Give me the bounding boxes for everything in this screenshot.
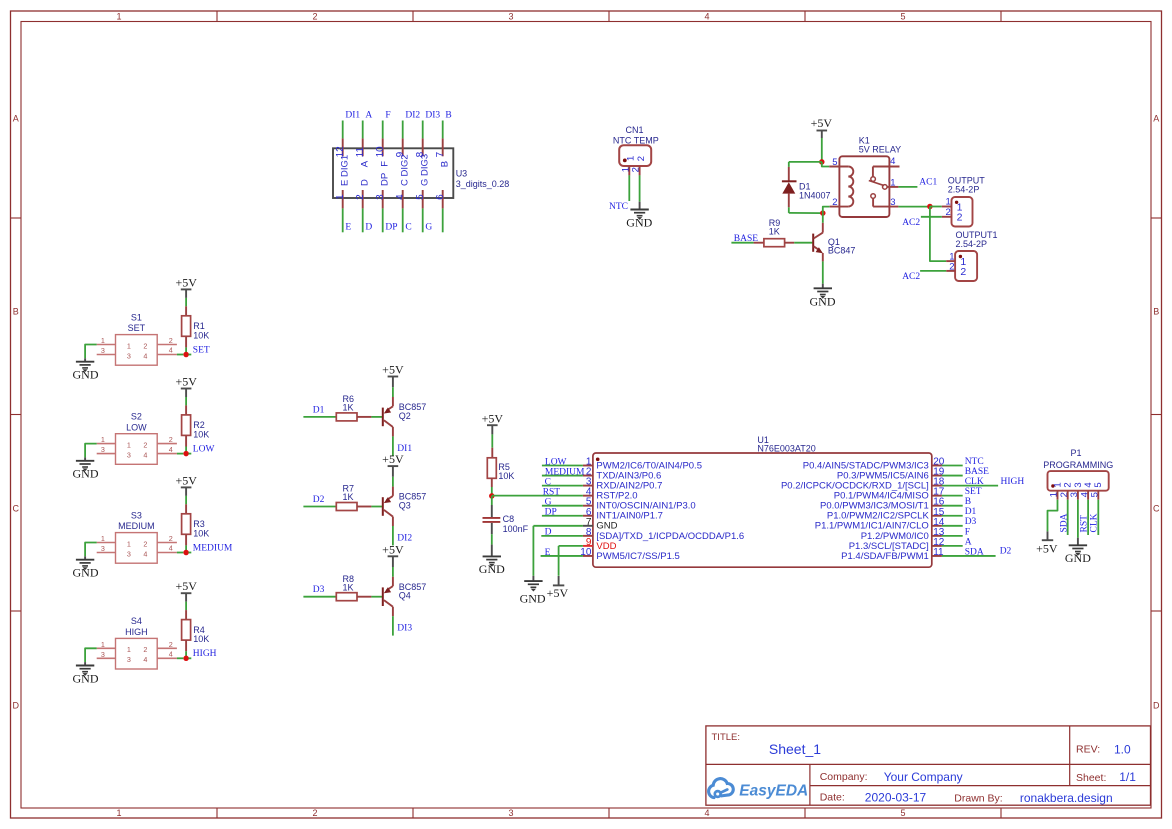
net label AC2 (902, 218, 920, 228)
junction node RST (489, 493, 495, 499)
wire (303, 506, 336, 508)
wire (942, 545, 963, 547)
resistor R6 1K (336, 413, 371, 421)
net label SDA (965, 547, 984, 557)
svg-text:1.0: 1.0 (1114, 742, 1131, 756)
label R2 10K (193, 420, 209, 439)
svg-text:4: 4 (890, 156, 895, 167)
svg-text:DI1: DI1 (345, 111, 360, 121)
svg-text:C DIG2: C DIG2 (400, 154, 411, 186)
svg-text:2: 2 (636, 156, 647, 161)
svg-text:7: 7 (435, 151, 446, 157)
switch S4 HIGH (97, 638, 177, 669)
label S3 MEDIUM (118, 510, 155, 531)
svg-text:REV:: REV: (1076, 744, 1100, 756)
svg-text:DI2: DI2 (405, 111, 420, 121)
U1 pin 10 (PWM5/IC7/SS/P1.5) (580, 547, 680, 562)
+5V power (R3) (175, 473, 197, 496)
svg-text:4: 4 (143, 655, 147, 664)
svg-text:GND: GND (73, 368, 99, 382)
net label SET (965, 487, 982, 497)
wire (921, 216, 942, 218)
wire (185, 397, 187, 405)
U3 pin 7 (435, 138, 451, 167)
svg-text:C8: C8 (503, 514, 515, 524)
svg-text:1: 1 (890, 177, 895, 188)
svg-text:2: 2 (832, 197, 837, 208)
net label D2 (313, 495, 325, 505)
svg-text:1: 1 (101, 534, 105, 543)
svg-text:4: 4 (395, 194, 406, 200)
net label AC2 (902, 272, 920, 282)
wire (422, 208, 424, 232)
svg-text:2: 2 (312, 808, 317, 818)
svg-text:G: G (425, 223, 432, 233)
wire (442, 208, 444, 232)
wire (177, 453, 183, 455)
net label DP (385, 223, 397, 233)
wire (942, 555, 996, 557)
svg-text:1K: 1K (343, 582, 354, 592)
wire (382, 121, 384, 139)
U1 pin 4 (RST/P2.0) (583, 487, 638, 502)
svg-text:10K: 10K (193, 528, 209, 538)
svg-text:1/1: 1/1 (1119, 770, 1136, 784)
wire (392, 436, 394, 455)
svg-text:A: A (1153, 114, 1159, 124)
wire (491, 496, 493, 505)
wire (930, 207, 946, 262)
wire (542, 485, 583, 487)
svg-text:10K: 10K (193, 430, 209, 440)
svg-text:2020-03-17: 2020-03-17 (865, 790, 927, 804)
svg-text:GND: GND (73, 467, 99, 481)
wire (392, 616, 394, 635)
label OUTPUT 2.54-2P (948, 175, 986, 194)
svg-text:4: 4 (169, 445, 173, 454)
label S4 HIGH (125, 616, 148, 637)
svg-text:3: 3 (101, 544, 105, 553)
svg-text:DP: DP (380, 173, 391, 186)
svg-text:2: 2 (949, 262, 954, 273)
U1 pin 11 (P1.4/SDA/FB/PWM1) (841, 547, 944, 562)
net label E (345, 223, 351, 233)
svg-text:B: B (445, 111, 451, 121)
U3 pin 2 (355, 179, 371, 208)
svg-text:+5V: +5V (1036, 541, 1058, 555)
svg-text:3: 3 (127, 655, 131, 664)
label Q2 BC857 (399, 402, 427, 421)
wire (822, 213, 824, 223)
svg-text:10K: 10K (193, 330, 209, 340)
svg-text:MEDIUM: MEDIUM (545, 467, 585, 477)
net label D2 (1000, 546, 1012, 556)
net label D3 (313, 585, 325, 595)
net label MEDIUM (193, 543, 233, 553)
svg-text:3: 3 (101, 650, 105, 659)
U3 pin 10 (375, 138, 391, 166)
ground P1 (1065, 538, 1091, 565)
transistor Q2 BC857 (383, 397, 393, 436)
svg-text:PWM5/IC7/SS/P1.5: PWM5/IC7/SS/P1.5 (596, 551, 679, 562)
wire (177, 354, 183, 356)
svg-text:GND: GND (73, 566, 99, 580)
svg-text:NTC: NTC (965, 457, 984, 467)
net label SET (193, 345, 210, 355)
OUTPUT pin numbers (946, 197, 951, 219)
net label E (545, 548, 551, 558)
P1 pin 1 stub (1057, 491, 1059, 500)
label R3 10K (193, 519, 209, 538)
svg-text:5: 5 (415, 194, 426, 200)
net label AC1 (919, 178, 937, 188)
svg-text:1: 1 (335, 194, 346, 200)
svg-text:AC1: AC1 (919, 178, 937, 188)
wire (189, 354, 192, 356)
wire (85, 543, 97, 557)
+5V power (R4) (175, 579, 197, 602)
svg-text:SDA: SDA (965, 547, 984, 557)
svg-text:1: 1 (127, 341, 131, 350)
svg-text:4: 4 (704, 12, 709, 22)
svg-text:Q2: Q2 (399, 411, 411, 421)
wire (371, 416, 382, 418)
+5V power U1 pin9 (547, 576, 569, 600)
label R7 1K (343, 484, 355, 503)
svg-text:1: 1 (101, 336, 105, 345)
svg-text:5: 5 (900, 12, 905, 22)
svg-text:D: D (1153, 701, 1160, 711)
svg-text:SDA: SDA (1059, 513, 1069, 532)
svg-text:3: 3 (127, 450, 131, 459)
svg-text:100nF: 100nF (503, 524, 529, 534)
svg-text:DP: DP (545, 508, 557, 518)
svg-text:Company:: Company: (820, 771, 868, 783)
label R9 1K (769, 218, 781, 237)
+5V power (Q4) (382, 542, 404, 567)
net label D1 (965, 507, 977, 517)
net label LOW (193, 445, 215, 455)
net label CLK (1090, 513, 1100, 532)
svg-text:[SDA]/TXD_1/ICPDA/OCDDA/P1.6: [SDA]/TXD_1/ICPDA/OCDDA/P1.6 (596, 531, 744, 542)
svg-text:BASE: BASE (965, 467, 989, 477)
U1 pin 1 (PWM2/IC6/T0/AIN4/P0.5) (583, 457, 702, 472)
svg-text:3: 3 (127, 549, 131, 558)
wire (189, 552, 192, 554)
svg-text:10K: 10K (498, 471, 514, 481)
wire (731, 242, 753, 244)
svg-text:GND: GND (73, 671, 99, 685)
svg-text:4: 4 (143, 450, 147, 459)
P1 pin numbers (1049, 492, 1101, 497)
P1 pin 3 stub (1077, 491, 1079, 500)
net label CLK (965, 477, 984, 487)
svg-text:C: C (12, 504, 19, 514)
wire (392, 477, 394, 487)
svg-text:1: 1 (116, 808, 121, 818)
wire (942, 485, 998, 487)
svg-text:SET: SET (965, 487, 982, 497)
svg-text:1K: 1K (343, 492, 354, 502)
svg-text:2: 2 (169, 336, 173, 345)
P1 pin 2 stub (1067, 491, 1069, 500)
wire (185, 298, 187, 306)
svg-text:+5V: +5V (811, 116, 833, 130)
junction node HIGH (183, 656, 189, 662)
capacitor C8 100nF (483, 505, 501, 534)
ground CN1 (626, 202, 652, 230)
transistor Q3 BC857 (383, 487, 393, 526)
wire (942, 495, 963, 497)
wire (542, 475, 583, 477)
wire (822, 261, 824, 283)
svg-text:+5V: +5V (175, 579, 197, 593)
svg-text:+5V: +5V (382, 542, 404, 556)
wire (189, 657, 192, 659)
wire (85, 648, 97, 662)
svg-text:4: 4 (704, 808, 709, 818)
svg-text:DI3: DI3 (397, 624, 412, 634)
svg-text:D2: D2 (313, 495, 325, 505)
label R4 10K (193, 625, 209, 644)
junction node LOW (183, 451, 189, 457)
svg-text:B: B (965, 497, 971, 507)
svg-text:2: 2 (946, 207, 951, 218)
svg-text:GND: GND (810, 295, 836, 309)
wire (942, 465, 963, 467)
net label F (965, 527, 970, 537)
EasyEDA logo (709, 779, 809, 800)
svg-text:2: 2 (143, 645, 147, 654)
wire (382, 208, 384, 232)
net label BASE (965, 467, 989, 477)
ground S2 (73, 457, 99, 480)
net label HIGH (1001, 477, 1025, 487)
svg-text:2: 2 (169, 640, 173, 649)
svg-text:DP: DP (385, 223, 397, 233)
connector P1 PROGRAMMING (1048, 471, 1109, 491)
svg-text:LOW: LOW (545, 457, 567, 467)
switch S3 MEDIUM (97, 533, 177, 564)
net label D3 (965, 517, 977, 527)
svg-text:P1: P1 (1070, 448, 1081, 458)
svg-text:2: 2 (960, 266, 966, 278)
svg-text:S1: S1 (131, 312, 142, 322)
svg-text:E: E (345, 223, 351, 233)
wire (942, 535, 963, 537)
svg-text:2: 2 (631, 167, 642, 172)
svg-text:+5V: +5V (547, 586, 569, 600)
svg-text:+5V: +5V (175, 275, 197, 289)
net label NTC (609, 202, 628, 212)
U1 pin 17 (P0.1/PWM4/IC4/MISO) (834, 487, 945, 502)
net label A (365, 111, 372, 121)
svg-text:2: 2 (143, 440, 147, 449)
net label F (385, 111, 390, 121)
ground U1 pin7 (520, 576, 546, 606)
+5V power (R1) (175, 275, 197, 298)
wire (342, 121, 344, 139)
svg-text:3: 3 (101, 445, 105, 454)
svg-text:2: 2 (143, 341, 147, 350)
svg-text:1: 1 (101, 640, 105, 649)
wire (392, 526, 394, 545)
svg-text:1K: 1K (343, 403, 354, 413)
IC U3 3_digits_0.28 (333, 148, 453, 198)
svg-text:HIGH: HIGH (1001, 477, 1025, 487)
svg-text:B: B (1153, 307, 1159, 317)
wire (789, 212, 823, 214)
U3 pin 9 (395, 138, 406, 157)
svg-text:5: 5 (832, 157, 837, 168)
svg-text:D: D (360, 179, 371, 186)
wire (822, 162, 830, 167)
svg-text:CN1: CN1 (625, 125, 643, 135)
svg-text:5: 5 (1093, 482, 1104, 487)
svg-text:3: 3 (127, 351, 131, 360)
wire (541, 535, 583, 537)
U1 pin 5 (INT0/OSCIN/AIN1/P3.0) (583, 497, 696, 512)
svg-text:+5V: +5V (175, 374, 197, 388)
wire (185, 447, 187, 452)
wire (821, 138, 823, 162)
U3 pin 5 (415, 154, 431, 209)
wire (789, 161, 822, 163)
wire (823, 207, 830, 214)
svg-text:1: 1 (116, 12, 121, 22)
net label D (545, 528, 552, 538)
wire (1048, 500, 1058, 532)
net label RST (543, 487, 561, 497)
U3 pin 4 (395, 154, 411, 208)
svg-text:HIGH: HIGH (125, 627, 148, 637)
svg-text:11: 11 (355, 147, 366, 158)
svg-text:2: 2 (169, 435, 173, 444)
wire (362, 121, 364, 139)
wire (492, 495, 583, 497)
+5V power (relay) (811, 116, 833, 138)
svg-text:C: C (545, 477, 551, 487)
svg-text:Drawn By:: Drawn By: (954, 793, 1002, 805)
U1 pin 9 (VDD) (583, 537, 617, 552)
label Q1 BC847 (828, 237, 856, 256)
wire (1067, 500, 1069, 535)
wire (85, 444, 97, 458)
U3 pin 3 (375, 173, 391, 209)
wire (185, 347, 187, 352)
resistor R5 10K (487, 448, 496, 487)
wire (920, 270, 946, 272)
label P1 PROGRAMMING (1043, 448, 1113, 470)
wire (942, 525, 963, 527)
net label DI3 (425, 111, 440, 121)
U1 pin 2 (TXD/AIN3/P0.6) (583, 467, 661, 482)
net label NTC (965, 457, 984, 467)
svg-text:S3: S3 (131, 510, 142, 520)
resistor R7 1K (336, 503, 371, 511)
wire (542, 505, 583, 507)
svg-text:Q4: Q4 (399, 591, 411, 601)
wire (898, 186, 917, 188)
wire (1097, 500, 1099, 535)
svg-text:+5V: +5V (382, 363, 404, 377)
wire (898, 206, 929, 208)
label S2 LOW (126, 412, 147, 433)
svg-text:1: 1 (946, 197, 951, 208)
ground C8 (479, 545, 505, 576)
svg-text:C: C (1153, 504, 1160, 514)
svg-text:PROGRAMMING: PROGRAMMING (1043, 460, 1113, 470)
junction node K1-3/OUTPUT (927, 204, 933, 210)
svg-text:1: 1 (101, 435, 105, 444)
wire (533, 525, 583, 527)
svg-text:Sheet_1: Sheet_1 (769, 741, 821, 757)
wire (442, 121, 444, 139)
label Q4 BC857 (399, 582, 427, 601)
wire (185, 602, 187, 610)
U1 pin 8 ([SDA]/TXD_1/ICPDA/OCDDA/P1.6) (583, 527, 744, 542)
K1 pin numbers (832, 156, 895, 208)
+5V power (Q3) (382, 452, 404, 477)
net label B (965, 497, 971, 507)
label OUTPUT1 2.54-2P (956, 230, 998, 249)
wire (542, 465, 583, 467)
svg-text:GND: GND (1065, 551, 1091, 565)
svg-text:2.54-2P: 2.54-2P (956, 239, 988, 249)
resistor R2 10K (182, 405, 191, 446)
P1 pin 5 stub (1097, 491, 1099, 500)
svg-text:2.54-2P: 2.54-2P (948, 185, 980, 195)
svg-text:RST: RST (543, 487, 561, 497)
net label DP (545, 508, 557, 518)
net label C (405, 223, 411, 233)
wire (542, 515, 583, 517)
wire (491, 487, 493, 496)
net label HIGH (193, 649, 217, 659)
svg-text:D: D (545, 528, 552, 538)
transistor Q1 BC847 (813, 223, 823, 262)
label R8 1K (343, 574, 355, 593)
P1 pin 4 stub (1087, 491, 1089, 500)
svg-text:4: 4 (143, 549, 147, 558)
svg-text:NTC: NTC (609, 202, 628, 212)
U1 pin 20 (P0.4/AIN5/STADC/PWM3/IC3) (803, 457, 945, 472)
svg-text:A: A (360, 160, 371, 167)
wire (185, 651, 187, 656)
resistor R1 10K (182, 306, 191, 347)
label S1 SET (128, 312, 146, 333)
U1 pin 13 (P1.2/PWM0/IC0) (861, 527, 945, 542)
svg-text:F: F (965, 527, 970, 537)
junction node MEDIUM (183, 550, 189, 556)
ground S4 (73, 662, 99, 685)
+5V power (R5) (482, 412, 504, 435)
net label DI2 (405, 111, 420, 121)
net label C (545, 477, 551, 487)
wire (491, 434, 493, 447)
svg-text:+5V: +5V (482, 412, 504, 426)
svg-text:5V RELAY: 5V RELAY (859, 144, 901, 154)
+5V power (R2) (175, 374, 197, 397)
svg-text:LOW: LOW (126, 422, 147, 432)
U3 pin 8 (415, 138, 426, 157)
wire (1077, 500, 1079, 538)
connector CN1 NTC TEMP (619, 145, 651, 175)
wire (628, 175, 630, 201)
label U1 N76E003AT20 (757, 435, 815, 454)
label R6 1K (343, 394, 355, 413)
svg-text:AC2: AC2 (902, 272, 920, 282)
